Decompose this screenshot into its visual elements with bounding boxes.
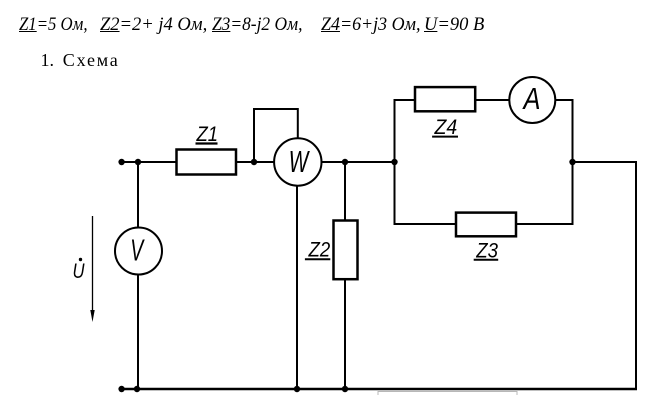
node: parallel group right: [569, 159, 575, 165]
label Z3: [474, 239, 499, 262]
label Z4: [432, 116, 458, 139]
wire: Z4 branch left lead: [394, 99, 416, 101]
faint cropped box edge below bottom wire: [378, 392, 517, 396]
wire: voltmeter branch bottom: [137, 274, 139, 390]
resistor Z3: [456, 213, 516, 237]
wire: voltmeter branch top: [137, 161, 139, 228]
wire: bottom return: [122, 388, 637, 390]
voltmeter V: [115, 228, 162, 275]
wire: W right to node J4: [321, 161, 395, 163]
wire: Z2 bottom lead: [344, 279, 346, 390]
node: W voltage coil tap: [251, 159, 257, 165]
section title "1. Схема": [41, 51, 55, 69]
node: Z2 bottom junction: [342, 386, 348, 392]
node: Z2 tap: [342, 159, 348, 165]
wire: ammeter A to right vertical: [555, 99, 574, 101]
node: left top terminal: [118, 159, 124, 165]
resistor Z2: [334, 221, 358, 280]
svg-text:U: U: [73, 259, 85, 283]
wire: node J4 down to Z3 branch: [394, 161, 396, 225]
wire: wattmeter voltage-coil loop over W: [254, 109, 298, 162]
wire: Z1 to wattmeter W: [236, 161, 275, 163]
svg-text:A: A: [522, 82, 541, 116]
wire: output node J5 to right edge: [573, 161, 638, 163]
wire: Z3 right lead: [516, 223, 574, 225]
svg-text:Z2: Z2: [308, 239, 331, 262]
label U source voltage with dot: [73, 258, 85, 283]
node: V branch top junction: [135, 159, 141, 165]
svg-text:V: V: [130, 233, 145, 267]
arrow: source voltage direction: [90, 216, 94, 322]
node: W bottom junction: [294, 386, 300, 392]
svg-text:W: W: [289, 145, 311, 179]
wire: right outer vertical: [635, 161, 637, 390]
wire: Z4 to ammeter A: [475, 99, 510, 101]
resistor Z1: [177, 150, 237, 175]
parameters caption line: [19, 16, 88, 35]
wire: W bottom lead to return: [296, 185, 298, 390]
label Z2: [305, 239, 331, 262]
wattmeter W: [274, 138, 321, 185]
wire: node J4 up to Z4 branch: [394, 99, 396, 163]
wire: Z3 branch left lead: [394, 223, 457, 225]
ammeter A: [509, 77, 555, 123]
wire: top-left from terminal to Z1: [122, 161, 176, 163]
label Z1: [196, 123, 219, 146]
node: left bottom terminal: [118, 386, 124, 392]
resistor Z4: [415, 87, 475, 111]
wire: right vertical of parallel group: [572, 99, 574, 225]
node: V branch bottom junction: [134, 386, 140, 392]
wire: Z2 top lead: [344, 161, 346, 221]
node: parallel group left: [391, 159, 397, 165]
